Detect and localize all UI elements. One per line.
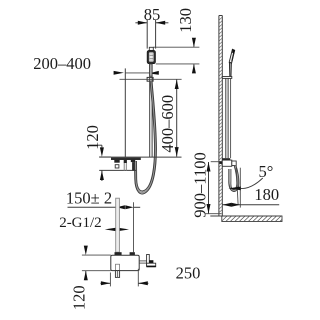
side holder bracket [222, 77, 232, 79]
dim line 150+-2 [68, 206, 117, 208]
angle arrow 5deg [228, 187, 241, 191]
slide bar [149, 64, 151, 157]
extension line 150+-2 right [133, 202, 135, 252]
second inlet flange [130, 252, 135, 255]
side outlet elbow [232, 161, 236, 166]
outlet elbow dark piece [149, 260, 153, 263]
svg-text:150± 2: 150± 2 [66, 188, 112, 207]
side slide bar [225, 78, 227, 158]
shower hose front [136, 81, 156, 193]
svg-text:400–600: 400–600 [158, 95, 177, 153]
extension line 180 right [239, 168, 241, 208]
angle leader 5deg [241, 178, 263, 189]
dim base line 900-1100 [205, 213, 222, 215]
mixer top line [99, 156, 181, 158]
vertical reference line [124, 68, 126, 157]
dim line 85 [135, 22, 147, 24]
mixer outlet right [131, 159, 135, 162]
side hose upper [230, 78, 232, 158]
leader line holder bottom [120, 78, 182, 80]
svg-text:2-G1/2: 2-G1/2 [59, 215, 101, 231]
svg-text:120: 120 [69, 285, 88, 310]
svg-text:250: 250 [176, 264, 201, 283]
extension line 900-1100 top [211, 161, 223, 163]
dim line 900-1100 [208, 162, 210, 214]
valve body [111, 255, 139, 270]
dim line 250 [100, 282, 110, 284]
side valve [219, 161, 222, 164]
svg-text:900–1100: 900–1100 [190, 152, 209, 217]
slider holder [147, 77, 153, 81]
outlet elbow riser [147, 255, 150, 266]
extension lines 120 upper [99, 156, 111, 158]
outlet stub lines [139, 260, 146, 262]
dim line 120 upper [101, 145, 103, 147]
svg-text:5°: 5° [259, 162, 274, 181]
svg-text:130: 130 [176, 8, 195, 33]
mixer center piece [124, 160, 127, 163]
slider knob [152, 71, 159, 75]
leader line holder top [126, 72, 150, 74]
mixer trim bar [111, 158, 141, 160]
side hose loop [229, 166, 238, 191]
leader arrow 200-400 [114, 71, 124, 75]
extension lines 250 [109, 273, 111, 287]
extension lines 85 [146, 20, 148, 49]
outlet drop line 5deg [236, 168, 238, 205]
supply pipe flange [115, 252, 122, 255]
floor line [210, 215, 282, 217]
svg-text:180: 180 [254, 185, 279, 204]
outlet elbow flange [147, 263, 156, 267]
wall section [218, 16, 220, 217]
mixer handle left [114, 160, 119, 163]
hand shower head [147, 50, 155, 63]
svg-text:120: 120 [83, 125, 102, 150]
leader line head top [153, 46, 199, 48]
dim line 400-600 [176, 80, 178, 157]
floor section [217, 216, 285, 221]
extension lines 120 lower [82, 254, 111, 256]
valve bottom outlet [115, 271, 119, 278]
dim line 120 lower [85, 246, 87, 247]
mixer bottom line [99, 169, 136, 171]
valve inner detail [116, 264, 120, 270]
hand shower handle [150, 64, 152, 76]
side hand shower head [229, 49, 235, 63]
svg-text:200–400: 200–400 [33, 54, 91, 73]
dim line 180 [222, 204, 279, 206]
dim 120 upper tick [89, 144, 102, 146]
leader line head bottom [156, 63, 200, 65]
side hand shower handle [229, 63, 231, 77]
supply pipe [116, 198, 120, 252]
dim line 130 [193, 40, 195, 47]
svg-text:85: 85 [144, 5, 161, 24]
thread arrows 2-G1/2 [105, 228, 116, 231]
hand shower cap [149, 47, 153, 50]
